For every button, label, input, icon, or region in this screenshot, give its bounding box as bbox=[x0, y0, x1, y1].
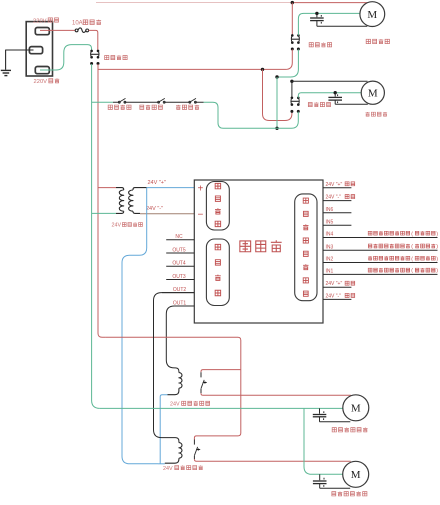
wire 24V- secondary to control box bbox=[140, 213, 194, 215]
svg-text:(: ( bbox=[411, 231, 413, 237]
pin R1 stub bbox=[323, 187, 351, 189]
wire earth from plug bbox=[6, 50, 34, 70]
svg-text:): ) bbox=[436, 231, 438, 237]
label detection switch 2 bbox=[140, 105, 144, 109]
label detection switch 3 bbox=[176, 105, 180, 109]
svg-text:−: − bbox=[198, 209, 204, 220]
svg-text:220V: 220V bbox=[33, 18, 47, 24]
junction node top rail bbox=[291, 1, 294, 4]
svg-text:24V "+": 24V "+" bbox=[326, 182, 343, 188]
wire top live rail (faint) bbox=[96, 2, 292, 4]
wire node A down to limit switch LS2 left pole bbox=[263, 69, 292, 120]
svg-text:OUT3: OUT3 bbox=[172, 274, 186, 280]
wire feed to relay K2 contact bbox=[194, 433, 240, 440]
relay K1 coil bbox=[179, 373, 182, 389]
relay K2 coil bbox=[179, 443, 182, 459]
svg-text:NC: NC bbox=[175, 234, 183, 240]
pin OUT5 stub bbox=[166, 252, 194, 254]
wire LS1 right pole to motor M1 neutral bbox=[298, 13, 360, 35]
label sensor input (vertical) bbox=[303, 198, 308, 203]
label lamp motor M2 bbox=[366, 112, 370, 116]
svg-text:OUT4: OUT4 bbox=[172, 261, 186, 267]
power switch S1 contacts bbox=[90, 50, 93, 53]
wire live to transformer primary bbox=[98, 187, 116, 189]
plug live prong (top) bbox=[35, 28, 49, 35]
wire 24V+ branch down to relays bbox=[122, 188, 158, 464]
svg-text:M: M bbox=[368, 88, 378, 100]
label return motor M4 bbox=[332, 492, 336, 496]
pin OUT4 stub bbox=[166, 265, 194, 267]
svg-text:M: M bbox=[351, 469, 361, 481]
wire neutral to transformer primary bbox=[92, 212, 116, 214]
svg-text:24V "-": 24V "-" bbox=[146, 206, 163, 212]
wire sensor line middle segment bbox=[113, 101, 204, 103]
220V wall plug P1 outline bbox=[26, 22, 52, 76]
wire LS2 right pole down to node C bbox=[277, 112, 298, 129]
relay K1 contact bbox=[201, 380, 204, 389]
pin R4 stub bbox=[323, 224, 351, 226]
svg-text:IN5: IN5 bbox=[326, 219, 334, 225]
label control box title bbox=[240, 241, 251, 252]
detection switch DS3 bbox=[190, 101, 195, 103]
limit switch LS1 contacts bbox=[291, 34, 294, 37]
svg-text:24V: 24V bbox=[112, 223, 122, 229]
pin NC stub bbox=[166, 239, 194, 241]
svg-text:24V: 24V bbox=[170, 402, 180, 408]
label sensor description IN2 bbox=[368, 256, 372, 260]
svg-text:10A: 10A bbox=[72, 21, 83, 27]
capacitor C3 bbox=[319, 408, 321, 413]
svg-text:IN2: IN2 bbox=[326, 257, 334, 263]
svg-text:): ) bbox=[436, 256, 438, 262]
label slide motor M3 bbox=[332, 428, 336, 432]
control box U1 outline bbox=[194, 180, 323, 323]
output port block bbox=[206, 239, 229, 306]
wire rail down to limit switch LS1 bbox=[291, 3, 293, 35]
pin R8 stub bbox=[323, 273, 438, 275]
pin OUT1 stub bbox=[174, 305, 194, 307]
wire relay K1 contact to motor M3 bbox=[200, 389, 202, 393]
fuse F1 10A bbox=[75, 29, 78, 32]
pin R10 stub bbox=[323, 298, 351, 300]
capacitor C2 bbox=[334, 93, 336, 97]
capacitor C1 bbox=[316, 13, 318, 17]
wire neutral branch to motor M4 bbox=[304, 408, 343, 474]
wire feed to relay K1 contact bbox=[201, 370, 241, 373]
label sensor description IN3 bbox=[368, 244, 372, 248]
label transmission motor M1 bbox=[366, 39, 370, 43]
svg-text:IN4: IN4 bbox=[326, 232, 334, 238]
label power switch bbox=[105, 55, 109, 59]
junction node D on motor M2 feed bbox=[290, 80, 293, 83]
motor M4 bbox=[343, 461, 369, 487]
plug earth prong (middle) bbox=[29, 47, 42, 54]
junction node capacitor C2 tap bbox=[334, 91, 337, 94]
wire neutral rail to motor M3 bbox=[100, 407, 343, 409]
detection switch DS2 bbox=[159, 101, 164, 103]
power input port block bbox=[206, 182, 229, 231]
ground symbol bbox=[1, 69, 11, 71]
junction node C bbox=[275, 127, 278, 130]
transformer T1 primary winding bbox=[116, 188, 124, 190]
junction node B bbox=[275, 75, 278, 78]
junction node capacitor C1 tap bbox=[315, 12, 318, 15]
label sensor description IN4 bbox=[368, 231, 372, 235]
svg-text:): ) bbox=[436, 268, 438, 274]
svg-text:(: ( bbox=[411, 244, 413, 250]
pin R7 stub bbox=[323, 262, 438, 264]
svg-text:24V "-": 24V "-" bbox=[326, 293, 342, 299]
label output port (vertical) bbox=[215, 244, 220, 249]
sensor input port block bbox=[295, 194, 317, 301]
wire sensor line to node C bbox=[204, 102, 278, 128]
pin R5 stub bbox=[323, 237, 438, 239]
svg-text:24V "+": 24V "+" bbox=[326, 281, 343, 287]
wire sensor line left segment bbox=[92, 101, 113, 103]
svg-text:24V "-": 24V "-" bbox=[326, 195, 342, 201]
wire live feed to relay contacts bbox=[105, 337, 241, 433]
power switch S1 lower terminals bbox=[90, 62, 93, 65]
wire LS1 left pole down to node A bbox=[98, 49, 292, 69]
pin R6 stub bbox=[323, 249, 438, 251]
wire fuse to power switch bbox=[89, 30, 98, 50]
wire node B down to node C bbox=[276, 77, 278, 128]
svg-text:(: ( bbox=[411, 268, 413, 274]
svg-text:220V: 220V bbox=[34, 79, 48, 85]
svg-text:24V: 24V bbox=[163, 466, 173, 472]
pin OUT2 stub bbox=[162, 292, 194, 294]
wire node D to LS2 left pole bbox=[291, 81, 293, 97]
wire node D to motor M2 live bbox=[292, 80, 368, 82]
wire OUT2 to relay K2 coil bbox=[154, 293, 195, 443]
wire relay K1 coil to 24V+ rail bbox=[160, 395, 167, 464]
svg-text:(: ( bbox=[411, 256, 413, 262]
wire neutral plug to power switch bbox=[40, 45, 92, 70]
svg-text:IN3: IN3 bbox=[326, 244, 334, 250]
pin OUT3 stub bbox=[166, 279, 194, 281]
svg-text:24V "+": 24V "+" bbox=[148, 180, 166, 186]
motor M3 bbox=[343, 395, 369, 421]
svg-text:M: M bbox=[367, 9, 377, 21]
svg-text:M: M bbox=[351, 403, 361, 415]
label power input (vertical) bbox=[215, 183, 220, 188]
wire LS2 right pole to motor M2 neutral bbox=[298, 93, 361, 98]
transformer T1 secondary winding bbox=[133, 188, 147, 190]
label detection switch 1 bbox=[108, 105, 112, 109]
limit switch LS1 lower terminals bbox=[291, 48, 294, 51]
wire 24V+ rail to relay K2 coil bbox=[158, 463, 165, 465]
pin R9 stub bbox=[323, 286, 351, 288]
relay K2 contact bbox=[194, 447, 197, 456]
wire relay K2 contact to motor M4 bbox=[193, 456, 195, 459]
wire OUT1 to relay K1 coil bbox=[166, 306, 194, 373]
limit switch LS2 contacts bbox=[291, 97, 294, 100]
wire top rail to motor M1 bbox=[292, 2, 367, 4]
motor M1 bbox=[360, 2, 385, 27]
svg-text:OUT5: OUT5 bbox=[172, 247, 186, 253]
wire live plug to fuse bbox=[40, 29, 75, 31]
capacitor C4 bbox=[319, 474, 321, 480]
svg-text:IN1: IN1 bbox=[326, 268, 334, 274]
limit switch LS2 lower terminals bbox=[290, 110, 293, 113]
label sensor description IN1 bbox=[368, 268, 372, 272]
label limit switch LS1 bbox=[309, 43, 313, 47]
pin R3 stub bbox=[323, 212, 351, 214]
wire neutral trunk (green vertical) bbox=[92, 64, 100, 408]
wire live trunk (red vertical) bbox=[98, 64, 105, 337]
junction node A bbox=[261, 68, 264, 71]
svg-text:): ) bbox=[436, 244, 438, 250]
svg-text:IN6: IN6 bbox=[326, 207, 334, 213]
pin R2 stub bbox=[323, 200, 351, 202]
label limit switch LS2 bbox=[308, 102, 312, 106]
wire green LS1-net down segment bbox=[277, 49, 298, 77]
wire 24V+ secondary to control box bbox=[147, 187, 195, 189]
detection switch DS1 bbox=[120, 101, 125, 103]
motor M2 bbox=[361, 81, 384, 104]
plug neutral prong (bottom) bbox=[35, 67, 49, 74]
svg-text:+: + bbox=[198, 183, 204, 194]
